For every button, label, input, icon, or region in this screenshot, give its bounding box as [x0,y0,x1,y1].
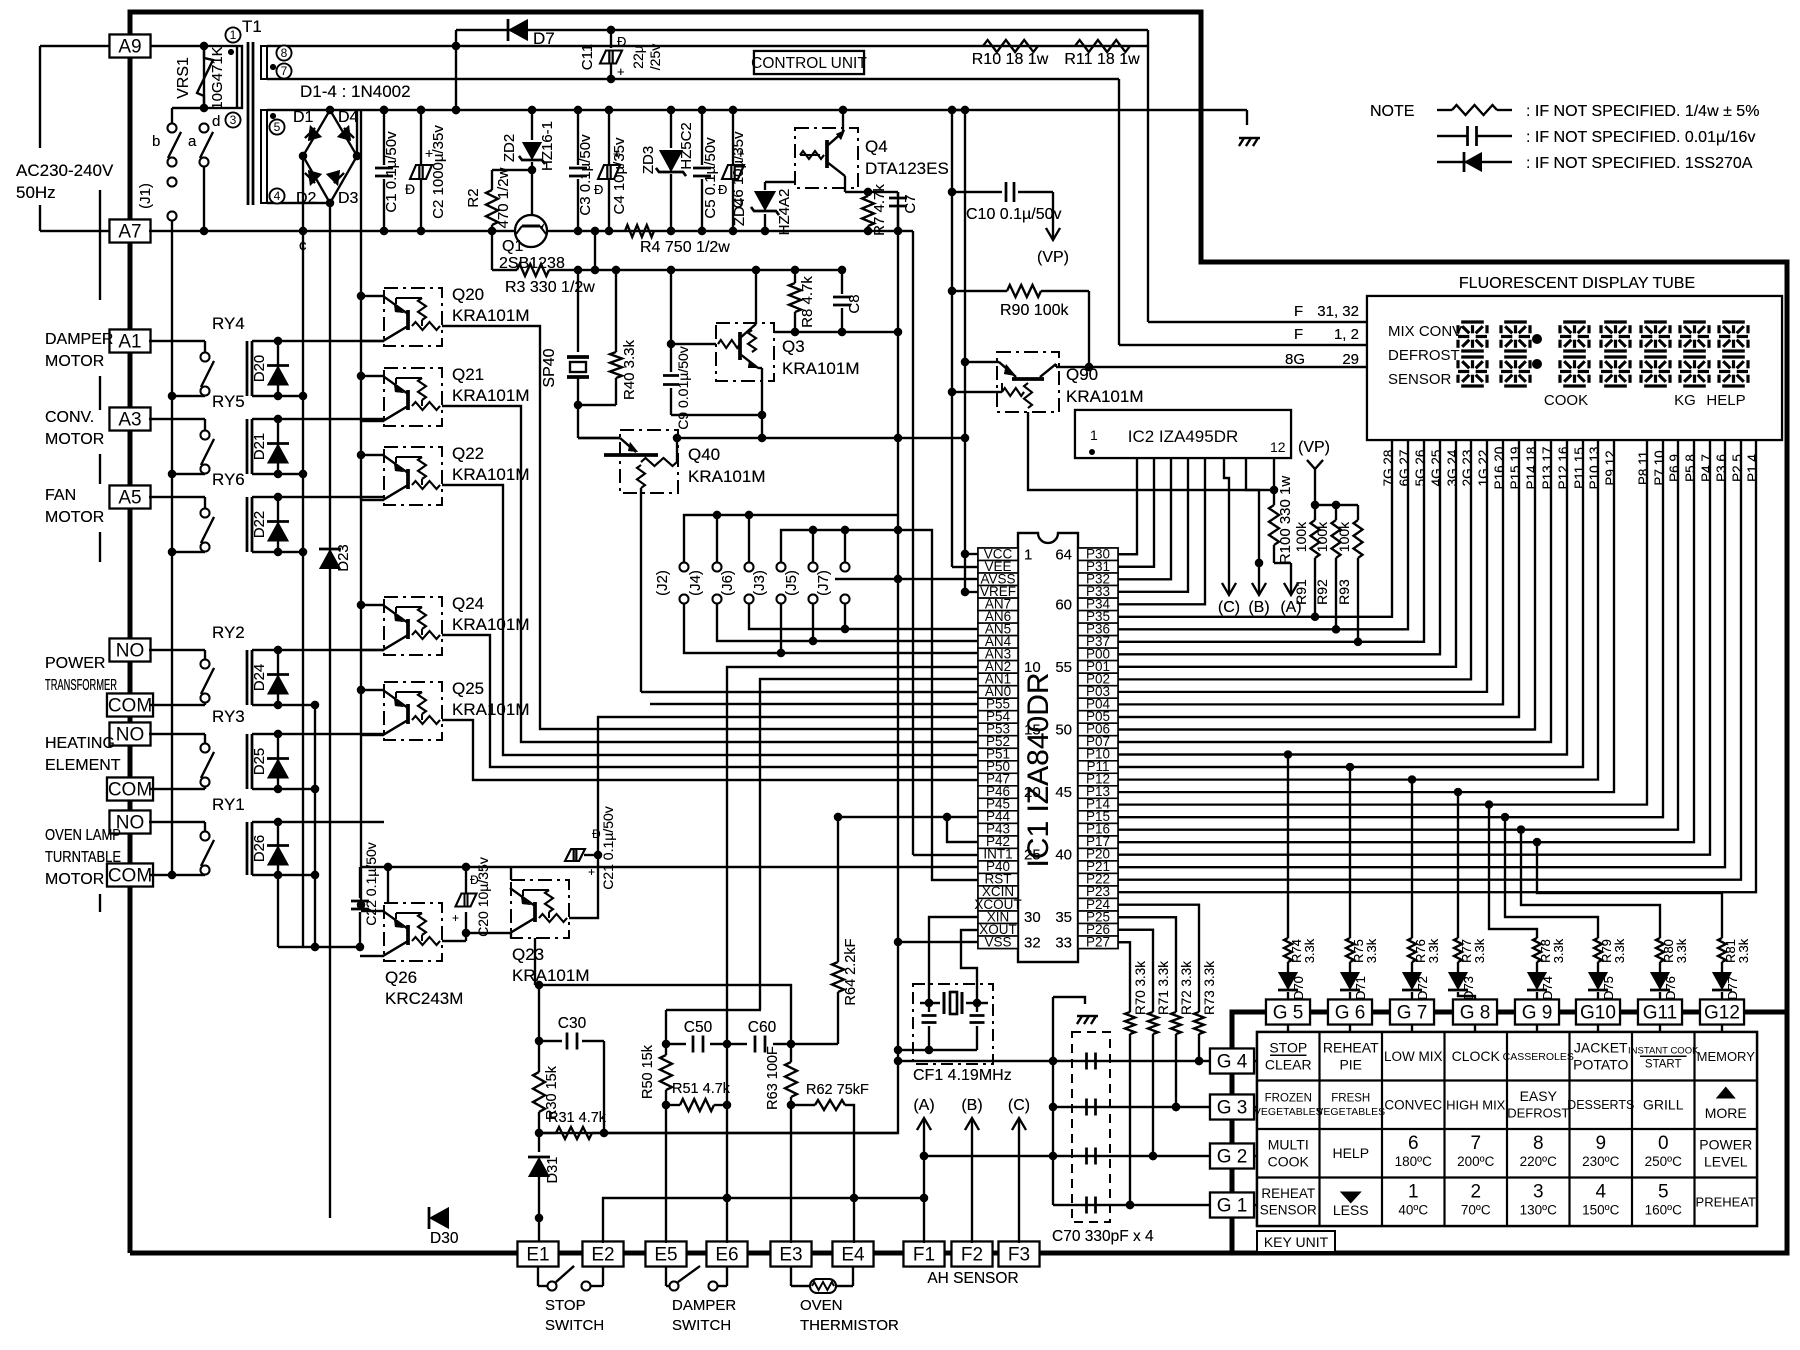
svg-text:E5: E5 [654,1245,677,1266]
terminal E4 [833,1242,874,1267]
transistor Q24 KRA101M [384,597,442,655]
diode D72 [1411,962,1413,972]
CF1 bottom bus [898,1049,977,1051]
wire P26 through R71 to G2 line [1118,930,1153,1012]
svg-text:P9 12: P9 12 [1603,450,1618,485]
resistor R2 470 1/2w [491,170,493,190]
svg-text:G 9: G 9 [1522,1003,1553,1024]
svg-text:1, 2: 1, 2 [1334,326,1359,343]
bridge rectifier D1-D4 [303,110,357,203]
svg-text:R100 330 1w: R100 330 1w [1277,476,1294,565]
ground [1239,138,1244,146]
svg-text:TRANSFORMER: TRANSFORMER [45,677,117,694]
transistor Q21 KRA101M [384,368,442,426]
svg-text:D20: D20 [251,355,268,383]
G4 line [898,1060,1210,1062]
display tube box [1367,296,1782,440]
jumper (J4) [716,515,718,563]
resistor R81 3.3k [1718,938,1726,962]
G2 line [924,1155,1210,1157]
wire y985 to E3 sensor column [539,985,791,1044]
svg-text:+: + [617,64,625,79]
oven thermistor [790,1267,792,1286]
D26 bottom to Q26 line [277,875,279,947]
vertical bus x952 to VEE [951,110,953,567]
jumper top bus 2 to RST [781,530,978,880]
svg-text:P4 7: P4 7 [1699,454,1714,482]
terminal G9 [1515,1000,1559,1025]
svg-text:70ºC: 70ºC [1461,1203,1491,1218]
G column stubs into table [1287,1025,1289,1032]
switch a [200,124,209,133]
diode D76 [1659,962,1661,972]
svg-text:7G 28: 7G 28 [1381,450,1396,487]
svg-text:SENSOR: SENSOR [1260,1203,1317,1218]
wire P14 to G9 column [1485,800,1493,808]
zener ZD4 HZ4A2 [764,214,766,231]
svg-text:G11: G11 [1643,1003,1678,1024]
AN1 column to R50 bus [760,679,978,1010]
key unit frame [1232,1012,1787,1253]
KEY UNIT label box [1257,1231,1335,1252]
svg-text:P11 15: P11 15 [1572,447,1587,489]
svg-text:E1: E1 [526,1245,549,1266]
svg-text:20: 20 [1024,784,1041,801]
svg-text:+: + [588,865,595,879]
Q24 emitter to bus [361,604,384,606]
VSS row wire [898,941,978,943]
svg-text:160ºC: 160ºC [1645,1203,1682,1218]
key matrix table [1257,1032,1757,1226]
terminal G 3 [1210,1095,1254,1120]
svg-text:3G 24: 3G 24 [1445,449,1460,486]
relay coil D24 [246,650,249,705]
node d [200,104,208,112]
svg-text:CLEAR: CLEAR [1265,1057,1312,1073]
Q23 collector column to C30 [535,985,539,1041]
wire P15 to G10 column [1501,813,1509,821]
svg-text:4G 25: 4G 25 [1429,450,1444,487]
resistor R62 75kF [787,1101,795,1109]
svg-text:C70 330pF x 4: C70 330pF x 4 [1052,1228,1154,1245]
terminal G 3 [1210,1095,1254,1120]
IC2 pins to IC1 P30-P34 [1118,458,1137,554]
svg-text:D24: D24 [251,664,268,692]
resistor R30 15k [538,1041,540,1072]
Q26 base from Q23 [442,940,466,942]
crystal CF1 dashed box [913,984,993,1064]
svg-text:REHEAT: REHEAT [1261,1186,1315,1201]
vertical bus x965 to VREF [964,110,966,592]
E3 riser column [790,1105,792,1243]
svg-text:D70: D70 [1291,976,1306,1000]
resistor R4 750 1/2w [625,225,654,237]
svg-text:130ºC: 130ºC [1520,1203,1557,1218]
svg-text:E2: E2 [591,1245,614,1266]
svg-text:P15 19: P15 19 [1508,447,1523,490]
terminal E2 [583,1242,624,1267]
resistor R80 3.3k [1656,938,1664,962]
diode D77 [1721,962,1723,972]
svg-text:POWER: POWER [1699,1137,1752,1153]
svg-text:30: 30 [1024,909,1041,926]
svg-text:D26: D26 [251,835,268,863]
capacitor C20 10u/35v electrolytic [462,929,470,937]
wire P10 to G5 column [1284,750,1292,758]
svg-text:100k: 100k [1314,521,1330,552]
diode D24 [277,650,279,705]
transistor Q26 KRC243M [384,903,442,961]
svg-text:R62 75kF: R62 75kF [806,1082,869,1098]
wire C9 to Q3 base [671,343,716,345]
connector J1 [168,178,177,187]
diode D72 [1411,962,1413,972]
AVSS row wire [835,578,978,580]
wire E4 sensor junction [850,1194,858,1202]
SP40 node to Q40 [577,405,579,438]
Q4 collector [844,176,846,192]
resistor R50 15k [662,1040,670,1048]
relay coil D25 [246,734,249,789]
resistor R31 4.7k [535,1129,543,1137]
terminal A3 [110,408,151,431]
wire P15 to G10 column [1501,813,1509,821]
transistor Q20 KRA101M [384,288,442,346]
G1 line [1053,1204,1210,1206]
vertical bus x952 to VEE [951,110,953,567]
(B) arrow [1258,568,1260,593]
wire P10 to G5 column [1284,750,1292,758]
display tube box [1367,296,1782,440]
svg-text:8: 8 [1533,1133,1544,1154]
svg-text:RY4: RY4 [212,314,245,333]
svg-text:IC2 IZA495DR: IC2 IZA495DR [1128,427,1239,446]
capacitor C9 0.01u/50v [667,266,675,274]
0V rail / A7 line [149,230,516,232]
wire P14 to G9 column [1485,800,1493,808]
Q22 emitter to bus [361,454,384,456]
wire Q22 base to IC1 P50 [442,485,978,755]
svg-text:3: 3 [230,113,237,127]
resistor R100 330 1w [1270,486,1278,494]
G row stubs [1254,1060,1257,1062]
svg-text:FAN: FAN [45,487,76,504]
damper switch [665,1267,667,1286]
svg-text:C8: C8 [846,294,863,313]
svg-text:P27: P27 [1086,934,1110,949]
bridge + riser [356,110,358,156]
terminal A9 [110,35,151,58]
jumper columns down [844,603,846,629]
R91 R92 R93 100k pullups [1315,504,1358,506]
terminal G12 [1700,1000,1744,1025]
Q90 collector to display 8G [1055,364,1057,367]
E5 riser column [665,1105,667,1243]
diode D25 [277,734,279,789]
svg-text:R2: R2 [465,188,482,207]
transistor Q4 DTA123ES [795,128,858,188]
wire J2 row to IC1 AN3 [684,603,978,653]
resistor R78 3.3k [1533,938,1541,962]
wire Q25 base to IC1 P46 [442,720,978,780]
svg-text:G 8: G 8 [1460,1003,1491,1024]
svg-text:1G 22: 1G 22 [1476,450,1491,487]
resistor R64 2.2kF [834,813,842,821]
svg-text:22µ: 22µ [630,45,646,69]
resistor R50 15k [662,1040,670,1048]
wire Q40 base to IC1 AN0 [641,691,978,693]
Q25 emitter to bus [361,689,384,691]
E2 riser to sensor line [603,1198,924,1243]
IC1 left pin boxes [978,548,1018,561]
svg-text:D3: D3 [338,190,359,207]
CF1 crystal symbol [920,1002,940,1004]
svg-text:15: 15 [1024,721,1041,738]
wire P16 to G11 column [1517,825,1525,833]
svg-text:PIE: PIE [1339,1057,1362,1073]
terminal F1 [904,1242,945,1267]
svg-text:ELEMENT: ELEMENT [45,757,121,774]
terminal COM RY3 [107,778,153,801]
VCC row wire [965,553,978,555]
svg-text:EASY: EASY [1520,1088,1558,1104]
ceramic filter SP40 [574,266,582,274]
jumper top bus 1 [684,515,898,563]
terminal A1 [110,330,151,353]
svg-text:KRA101M: KRA101M [1066,387,1143,406]
ground near C70 [1053,997,1085,1004]
svg-text:10: 10 [1024,659,1041,676]
CF1 caps [928,1003,930,1012]
svg-text:Q20: Q20 [452,285,484,304]
svg-text:JACKET: JACKET [1574,1040,1628,1056]
svg-text:(VP): (VP) [1298,439,1330,456]
diode D3 [326,170,340,186]
svg-text:G 6: G 6 [1335,1003,1366,1024]
svg-text:LEVEL: LEVEL [1704,1154,1748,1170]
coil supply bus x303 [302,231,304,552]
terminal A5 [110,486,151,509]
resistor R91 100k [1314,505,1316,520]
key matrix table [1257,1032,1757,1226]
svg-text:(J4): (J4) [687,570,704,596]
resistor R8 4.7k [791,266,799,274]
svg-text:Q1: Q1 [502,238,523,255]
svg-text:9: 9 [1595,1133,1606,1154]
capacitor C10 0.1u/50v [948,188,956,196]
jumper (J2) [680,563,689,572]
Q3 emitter up [755,270,757,324]
svg-text:G10: G10 [1580,1003,1616,1024]
svg-text:R3 330 1/2w: R3 330 1/2w [505,279,595,296]
relay switch bus [171,341,173,875]
diode D26 [277,822,279,875]
svg-text:HELP: HELP [1706,392,1745,409]
svg-text:(A): (A) [913,1097,934,1114]
T1 secondary 5-4 [261,110,267,203]
svg-text:R70 3.3k: R70 3.3k [1133,961,1148,1015]
C70 dashed box [1072,1032,1110,1222]
svg-text:MULTI: MULTI [1268,1137,1309,1153]
svg-text:1: 1 [1090,427,1098,443]
CONTROL UNIT label box [754,51,864,74]
C70 common bus [1052,997,1054,1205]
G row stubs [1254,1060,1257,1062]
svg-text:COOK: COOK [1544,392,1588,409]
svg-text:STOP: STOP [1269,1040,1307,1056]
diode D31 [538,1133,540,1152]
svg-text:(B): (B) [961,1097,982,1114]
IC2 pins to IC1 P30-P34 [1118,458,1137,554]
svg-text:G 3: G 3 [1217,1098,1248,1119]
resistor R40 3.3k [612,266,620,274]
coil supply bus x315 [314,705,316,947]
Q25 emitter to bus [361,689,384,691]
svg-text:F: F [1294,303,1303,320]
svg-text:R90 100k: R90 100k [1000,302,1069,319]
Q25 collector to coil [361,734,384,736]
transistor Q25 KRA101M [384,682,442,740]
(B) arrow [1258,568,1260,593]
terminal G8 [1453,1000,1497,1025]
svg-text:KRA101M: KRA101M [688,467,765,486]
Q21 emitter to bus [361,375,384,377]
svg-text:PREHEAT: PREHEAT [1696,1194,1756,1209]
resistor R64 2.2kF [834,813,842,821]
diode D1 [308,125,322,141]
svg-text:5: 5 [1658,1181,1669,1202]
capacitor C20 10u/35v electrolytic [462,929,470,937]
long vertical bus x898 [897,192,899,332]
svg-text:60: 60 [1055,596,1072,613]
svg-text:R93: R93 [1336,579,1352,605]
wire P25 through R72 to G3 line [1118,917,1176,1012]
wire Q20 base to IC1 P52 [442,326,978,729]
resistor R10 18 1w [983,40,1038,52]
svg-text:KRC243M: KRC243M [385,989,463,1008]
transistor Q20 KRA101M [384,288,442,346]
jumper (J7) [844,530,846,563]
svg-text:3.3k: 3.3k [1426,938,1441,963]
wire Q20 base to IC1 P52 [442,326,978,729]
IC2 pin12 wire to R100 [1273,458,1275,490]
terminal COM RY1 [107,864,153,887]
svg-text:VEGETABLES: VEGETABLES [1316,1106,1385,1118]
svg-text:1: 1 [1024,546,1032,563]
svg-text:D1-4 : 1N4002: D1-4 : 1N4002 [300,82,411,101]
resistor R76 3.3k [1408,938,1416,962]
svg-text:T1: T1 [242,17,262,36]
relay coil D26 [246,822,249,875]
terminal NO RY1 [110,811,151,834]
terminal A1 [110,330,151,353]
capacitor C3 0.1u/50v [577,110,579,165]
svg-text:VSS: VSS [984,934,1011,949]
wire P27 through R70 to G1 line [1118,942,1130,1012]
svg-text:6G 27: 6G 27 [1397,450,1412,487]
rail junction dots [380,106,388,114]
svg-text:C6 10µ/35v: C6 10µ/35v [730,131,747,209]
coil supply bus x303 [302,231,304,552]
AVSS row wire [835,578,978,580]
svg-text:/25v: /25v [647,44,663,70]
Q24 collector to coil [361,649,384,651]
svg-text:POWER: POWER [45,655,105,672]
svg-text:R11 18 1w: R11 18 1w [1064,51,1140,68]
svg-text:D30: D30 [430,1230,459,1247]
IC2 pin7 wire to (C) [1224,458,1229,568]
Q23 collector down to C30 column [510,933,512,938]
Q90 base resistor bottom to R100 line [1028,412,1274,490]
svg-text:COM: COM [108,866,152,887]
svg-text:2: 2 [1470,1181,1481,1202]
C70 common bus [1052,997,1054,1205]
svg-text:FRESH: FRESH [1331,1093,1370,1105]
terminal G7 [1390,1000,1434,1025]
wire R8/C8 bottom line into bus x898 [774,331,898,333]
svg-text:C3 0.1µ/50v: C3 0.1µ/50v [577,134,594,216]
terminal NO RY2 [110,639,151,662]
svg-text:KEY UNIT: KEY UNIT [1264,1234,1329,1250]
svg-text:RY3: RY3 [212,707,245,726]
svg-text:100k: 100k [1293,521,1309,552]
svg-text:P14 18: P14 18 [1524,447,1539,490]
Q4 collector [844,176,846,192]
resistor R62 75kF [787,1101,795,1109]
diode D7 line [456,29,1148,31]
T1 core [247,42,250,205]
label separator lines [1270,321,1367,323]
svg-text:C7: C7 [902,194,919,213]
note resistor symbol [1437,109,1452,111]
relay coil D25 [246,734,249,789]
resistor R90 100k [948,287,956,295]
diode D30 [429,1207,449,1229]
jumper columns down [844,603,846,629]
T1 secondary 8-7 [261,46,267,79]
zener ZD2 HZ16-1 [528,106,536,114]
capacitor C7 [897,192,899,196]
svg-text:D22: D22 [251,511,268,539]
svg-text:100k: 100k [1336,521,1352,552]
(A) arrow [1274,562,1291,564]
wire P17 to G12 column [1533,838,1541,846]
display digits row 1 [1461,320,1484,323]
svg-text:POTATO: POTATO [1573,1057,1628,1073]
R31 line to bus x898 [604,1132,898,1134]
wire Q40 base to IC1 AN0 [641,691,978,693]
AN2 column to E6 [727,667,978,1243]
terminal G12 [1700,1000,1744,1025]
resistor R78 3.3k [1533,938,1541,962]
terminal G9 [1515,1000,1559,1025]
varistor VRS1 10G471K [150,45,204,47]
svg-text:55: 55 [1055,659,1072,676]
capacitor C6 10u/35v electrolytic [732,110,734,164]
crystal CF1 dashed box [913,984,993,1064]
transistor Q90 KRA101M [997,352,1059,412]
V+ rail right continuation to ground [952,109,1247,111]
terminal G6 [1328,1000,1372,1025]
Q25 collector to coil [361,734,384,736]
relay coil D21 [246,419,249,474]
svg-text:R63 100F: R63 100F [765,1046,781,1110]
transistor Q40 KRA101M [620,430,678,493]
capacitor C4 10u/35v electrolytic [608,110,610,164]
svg-text:200ºC: 200ºC [1457,1154,1494,1169]
note resistor symbol [1437,109,1452,111]
svg-text:5G 26: 5G 26 [1413,450,1428,487]
